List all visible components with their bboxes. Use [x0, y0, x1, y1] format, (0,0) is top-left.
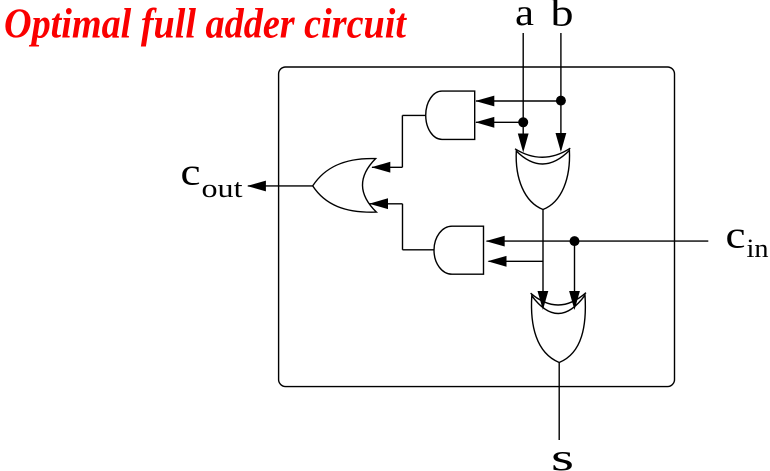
wire: AND2 output vertical [402, 204, 404, 250]
wire: XOR1 output vertical [542, 210, 544, 310]
and-gate AND2 [434, 226, 483, 274]
xor-gate XOR1 input arc [515, 148, 570, 157]
wire: c_in branch down to XOR2 [574, 241, 576, 309]
arrowhead into AND2 lower input [488, 256, 507, 267]
arrowhead into AND1 lower input [475, 117, 494, 128]
and-gate AND1 [426, 91, 475, 139]
junction dot on a line [518, 117, 528, 127]
svg-text:b: b [551, 0, 574, 35]
arrowhead into c_out label [247, 181, 266, 192]
wire: to OR upper input [372, 166, 402, 168]
arrowhead into XOR2 right input [569, 291, 580, 310]
wire: a branch to AND1 lower input [476, 121, 523, 123]
wire: input b vertical [560, 33, 562, 150]
enclosing box [279, 67, 675, 387]
wire: XOR2 output to s [558, 363, 560, 441]
svg-text:out: out [202, 174, 244, 203]
xor-gate XOR2 input arc [531, 293, 586, 305]
arrowhead into XOR1 right input [556, 133, 567, 152]
arrowhead into OR upper input [371, 162, 390, 173]
svg-text:in: in [747, 234, 769, 263]
xor-gate XOR2 body [532, 295, 586, 362]
svg-text:Optimal full adder circuit: Optimal full adder circuit [4, 2, 407, 48]
svg-text:c: c [726, 215, 746, 257]
wire: AND2 output stub [403, 249, 435, 251]
wire: b branch to AND1 upper input [476, 100, 561, 102]
arrowhead into AND2 upper input [486, 236, 505, 247]
arrowhead into XOR1 left input [518, 134, 529, 153]
wire: to OR lower input [370, 203, 403, 205]
svg-text:s: s [551, 437, 574, 471]
wire: branch to AND2 lower input [489, 260, 544, 262]
wire: input a vertical [522, 33, 524, 150]
svg-text:a: a [515, 0, 534, 34]
arrowhead into XOR2 left input [538, 291, 549, 310]
wire: c_in horizontal [487, 240, 709, 242]
wire: AND1 output vertical [401, 115, 403, 167]
arrowhead into OR lower input [369, 198, 388, 209]
or-gate OR1 [313, 159, 377, 213]
junction dot on b line [556, 96, 566, 106]
wire: OR output to c_out [248, 185, 313, 187]
wire: AND1 output stub [402, 114, 425, 116]
arrowhead into AND1 upper input [475, 96, 494, 107]
xor-gate XOR1 body [516, 150, 569, 209]
junction dot on c_in line [570, 236, 580, 246]
svg-text:c: c [181, 151, 201, 193]
